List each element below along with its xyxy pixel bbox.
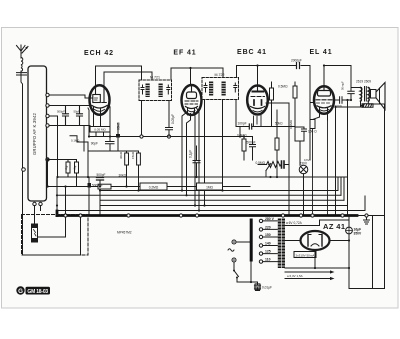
- svg-text:350V: 350V: [354, 231, 363, 235]
- wire T2 leads: [205, 100, 237, 206]
- capacitor C13 5000pF mid: [66, 177, 92, 216]
- wire oscillator grid left: [70, 126, 88, 152]
- svg-text:0,1μF: 0,1μF: [189, 150, 193, 158]
- node terminals on chassis bus: [64, 214, 368, 217]
- potentiometer VR1 0.5M: [258, 161, 289, 177]
- capacitor C12 500pF mid: [97, 178, 104, 187]
- wire T4 HT to AZ41: [285, 240, 301, 242]
- svg-text:2000pF: 2000pF: [291, 59, 302, 63]
- wire mid buses: [48, 177, 366, 216]
- trimmer pair left: [49, 160, 79, 187]
- capacitor C9 50mmF: [348, 91, 354, 100]
- IF transformer T2 M.722: [202, 78, 239, 100]
- capacitor C2 50pF: [77, 106, 83, 126]
- junction dots various: [56, 64, 352, 283]
- svg-text:125: 125: [265, 250, 271, 254]
- tube EBC41 U3: [247, 86, 268, 115]
- svg-text:230V: 230V: [300, 161, 308, 165]
- wire T1 secondary leads: [142, 101, 170, 137]
- svg-text:140: 140: [265, 242, 271, 246]
- wire block terminals right: [33, 93, 49, 205]
- wire verticals left mid: [0, 0, 1, 1]
- power transformer T4 primary bar: [250, 219, 253, 262]
- capacitor C1 500pF: [63, 106, 69, 126]
- resistor R7 150ohm cathode: [310, 117, 320, 216]
- svg-text:GM 18-03: GM 18-03: [27, 289, 48, 295]
- svg-text:30kΩ: 30kΩ: [119, 173, 127, 177]
- wire EBC41 plate to C7: [237, 66, 311, 161]
- svg-text:ECH 42: ECH 42: [84, 50, 114, 57]
- wire pickup to bus: [38, 217, 66, 237]
- svg-text:2619 2609: 2619 2609: [356, 80, 371, 84]
- wire B+ verticals right: [336, 100, 362, 216]
- svg-text:1MΩ: 1MΩ: [206, 186, 213, 190]
- tube ECH42 U1: [85, 85, 110, 115]
- svg-text:150 Ω: 150 Ω: [308, 130, 317, 134]
- svg-text:2000: 2000: [335, 105, 342, 109]
- svg-text:500pF: 500pF: [247, 141, 256, 145]
- svg-text:30kΩ: 30kΩ: [119, 151, 123, 159]
- svg-text:0.5MΩ: 0.5MΩ: [278, 85, 288, 89]
- svg-text:280 V: 280 V: [265, 217, 275, 221]
- wire EBC41 pins: [236, 116, 295, 137]
- svg-text:0.05μF: 0.05μF: [171, 114, 175, 124]
- capacitor C7 2000pF: [297, 63, 300, 69]
- svg-text:EBC 41: EBC 41: [237, 49, 267, 56]
- switch S1: [233, 262, 251, 282]
- wire EL41 grid stub: [310, 102, 315, 104]
- tube EL41 U4: [314, 86, 334, 120]
- capacitor C11 0.1uF: [193, 146, 200, 177]
- ground chassis symbol: [364, 217, 370, 224]
- svg-text:0.5MΩ: 0.5MΩ: [256, 161, 266, 165]
- wire y151: [84, 142, 139, 151]
- wire ECH42 plate loops: [96, 66, 153, 86]
- svg-text:MP457M2: MP457M2: [117, 231, 132, 235]
- svg-text:90pF: 90pF: [91, 142, 98, 146]
- capacitor C14 0.01uF mains: [251, 282, 261, 291]
- wire grid ECH42 input: [35, 95, 111, 224]
- capacitor C16 parallel lamp: [295, 98, 307, 141]
- resistor R4 0.1M vertical: [293, 82, 297, 98]
- resistor R10 30k vertical: [125, 151, 129, 187]
- svg-text:50kΩ: 50kΩ: [275, 121, 283, 125]
- resistor R1 0.05M: [90, 115, 110, 137]
- logo: [16, 286, 50, 295]
- svg-text:0.2MΩ: 0.2MΩ: [149, 186, 159, 190]
- resistor R12 20k: [98, 184, 111, 189]
- svg-text:0.5MΩ: 0.5MΩ: [237, 133, 247, 137]
- wire EL41 pins down: [327, 120, 329, 216]
- svg-text:0.05 MΩ: 0.05 MΩ: [94, 128, 106, 132]
- resistor R3 0.5M vertical: [270, 82, 274, 127]
- svg-text:2x310V 50mA: 2x310V 50mA: [296, 253, 315, 257]
- wire antenna down left side: [21, 71, 81, 255]
- pickup element P1: [32, 224, 38, 242]
- svg-text:0,1MΩ: 0,1MΩ: [289, 119, 293, 129]
- resistor R8 0.2M: [140, 183, 167, 190]
- junction dots left column: [46, 158, 48, 187]
- svg-text:220: 220: [265, 226, 271, 230]
- speaker LS: [371, 83, 386, 110]
- svg-text:EL 41: EL 41: [309, 49, 332, 56]
- node terminals on cathode bus: [140, 135, 143, 138]
- pickup dashed box: [22, 215, 89, 256]
- component value labels: [32, 59, 371, 290]
- capacitor C10 2000: [334, 97, 351, 103]
- wire T4 secondary heater top: [285, 220, 349, 227]
- wire EF41 top loop: [171, 68, 223, 85]
- wire bottom right rail: [349, 288, 385, 290]
- wire EF41 pins down: [182, 108, 199, 211]
- svg-text:GRUPPO AF K.3942: GRUPPO AF K.3942: [32, 113, 37, 156]
- svg-text:9,6V: 9,6V: [304, 158, 310, 162]
- svg-text:500pF: 500pF: [96, 173, 105, 177]
- IF transformer T1 M.721: [139, 80, 172, 101]
- svg-text:50mμF: 50mμF: [341, 81, 345, 90]
- wire heater 6.3V arrows: [285, 270, 335, 280]
- svg-text:500pF: 500pF: [57, 109, 65, 113]
- svg-text:EF 41: EF 41: [173, 50, 196, 57]
- lamp LP1: [299, 141, 308, 216]
- T4 winding column: [278, 219, 285, 269]
- resistor R6 0.5M vertical lower: [242, 137, 246, 161]
- resistor R2 60k vertical: [116, 123, 120, 151]
- label box HT: [294, 252, 316, 258]
- wire mains to primary: [250, 262, 252, 283]
- svg-text:110: 110: [265, 258, 271, 262]
- capacitor C4 0.05uF: [166, 125, 173, 137]
- wire ECH42 cathode bus: [89, 113, 253, 137]
- chassis bus thick: [57, 214, 357, 217]
- RF unit GRUPPO AF block: [28, 66, 47, 201]
- wire EL41 plate loop: [324, 66, 351, 92]
- T4 tap labels: [265, 217, 275, 262]
- svg-text:0.1MΩ: 0.1MΩ: [71, 139, 79, 143]
- resistor R5 50k vertical: [275, 110, 279, 177]
- antenna A: [17, 45, 29, 58]
- output transformer T3: [351, 87, 370, 108]
- svg-text:a 6,3V 1,5A: a 6,3V 1,5A: [287, 274, 303, 278]
- tube AZ41 U5: [301, 231, 330, 250]
- resistor R11 15k vertical: [137, 151, 141, 191]
- svg-text:5000pF: 5000pF: [92, 183, 103, 187]
- wire speaker return: [368, 104, 384, 289]
- svg-text:0,01μF: 0,01μF: [262, 285, 272, 289]
- resistor R9 1M: [197, 183, 223, 190]
- svg-text:AZ 41: AZ 41: [323, 222, 345, 231]
- svg-text:M.722: M.722: [215, 73, 225, 77]
- svg-text:60kΩ: 60kΩ: [117, 122, 121, 130]
- svg-text:50pF: 50pF: [74, 109, 81, 113]
- capacitor C15 16uF electrolytic: [330, 216, 353, 289]
- tube name labels: [84, 49, 345, 231]
- tube EF41 U2: [182, 85, 202, 115]
- svg-text:a 6V 0,72A: a 6V 0,72A: [286, 221, 303, 225]
- feedback arrow: [360, 104, 373, 107]
- T4 tap terminals: [259, 219, 277, 263]
- svg-text:150: 150: [265, 233, 271, 237]
- wire y151 right part: [87, 151, 89, 177]
- mains terminals: [228, 240, 250, 262]
- node terminal on left wire: [22, 168, 26, 172]
- svg-text:G: G: [18, 288, 23, 295]
- wire EBC diode return: [266, 103, 289, 216]
- capacitor C3 90pF: [106, 137, 115, 152]
- svg-text:M.721: M.721: [150, 76, 160, 80]
- antenna coil L1: [17, 58, 27, 76]
- capacitor C8 500pF lower: [250, 137, 256, 161]
- wire AZ41 heater bottom: [285, 250, 349, 268]
- svg-text:15kΩ: 15kΩ: [131, 151, 135, 159]
- svg-text:100pF: 100pF: [238, 121, 247, 125]
